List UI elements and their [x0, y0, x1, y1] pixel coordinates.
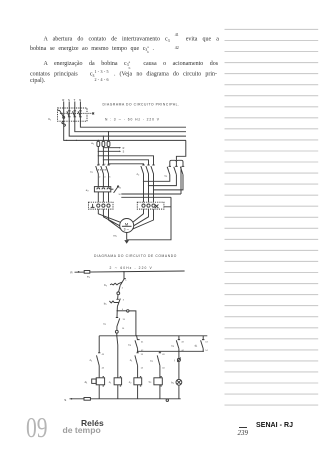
svg-text:R: R — [62, 98, 64, 102]
svg-text:c₃: c₃ — [128, 342, 132, 346]
wire delta link A — [121, 166, 181, 194]
contactor coil c3 — [154, 378, 162, 385]
wire node to b1 — [116, 295, 118, 300]
svg-text:2: 2 — [122, 288, 124, 290]
svg-text:d₁: d₁ — [85, 380, 88, 384]
svg-text:b₀: b₀ — [104, 283, 108, 287]
svg-text:14: 14 — [205, 350, 208, 352]
contact c1 seal (13-14) — [116, 311, 118, 318]
footer right — [256, 422, 293, 429]
branch c3: contact c2 (43-44) — [159, 351, 161, 353]
switch b1 pole N — [78, 111, 82, 117]
wire R squiggle — [62, 121, 66, 126]
wire T phase with bus — [75, 102, 186, 132]
wires box2 to motor — [132, 209, 153, 229]
wire interlock to junction — [137, 349, 139, 352]
flag indicator f — [178, 351, 180, 358]
contactor c2 pole 3 — [151, 165, 155, 202]
svg-text:h₁: h₁ — [171, 381, 174, 385]
feed wire to contactor c2 pole3 — [108, 163, 109, 164]
tap arrow to command R — [103, 147, 104, 148]
svg-text:44: 44 — [162, 367, 165, 369]
svg-text:c₃: c₃ — [171, 344, 175, 348]
svg-text:44: 44 — [102, 367, 105, 369]
overload relay e2 trip lever — [111, 188, 114, 190]
svg-text:4: 4 — [104, 177, 106, 179]
motor terminal box 2 (dashed) — [137, 202, 164, 209]
feed wire to contactor c2 pole1 — [98, 155, 99, 156]
svg-text:c₁: c₁ — [109, 380, 112, 384]
svg-text:c₃: c₃ — [149, 379, 153, 383]
time relay coil d1 — [92, 379, 97, 383]
svg-text:c₂: c₂ — [129, 380, 133, 384]
wire b0 to node — [119, 285, 121, 292]
branch c2: contact c1 (13-14) — [136, 351, 138, 353]
svg-text:43: 43 — [181, 341, 184, 343]
contact c3 interlock (41-42) — [137, 336, 140, 340]
wire delta link B — [121, 196, 171, 198]
svg-text:c₁: c₁ — [90, 358, 93, 362]
branch d1: contact c1 (43-44) — [98, 336, 100, 353]
wire N phase with bus — [80, 102, 186, 128]
wire c1 to node — [116, 327, 118, 331]
junction on rail — [123, 271, 124, 272]
terminal earth mark — [91, 204, 95, 208]
wire top rail L1 — [75, 271, 185, 272]
svg-text:M: M — [125, 221, 128, 226]
contactor c1 pole 1 (pins 1-2) — [96, 165, 100, 187]
wire b1 down to junction — [116, 306, 118, 310]
contactor c3 pole 1 — [167, 166, 171, 174]
svg-text:c₁: c₁ — [90, 170, 93, 174]
fuse e1 pole 1 + wire — [98, 140, 99, 141]
paragraph text — [44, 33, 219, 43]
contactor c3 feed from R bus — [176, 140, 185, 160]
fuse e1 pole 3 + wire — [108, 131, 109, 132]
wire R phase with bus — [64, 102, 186, 141]
motor terminal box 1 (dashed) — [89, 202, 114, 209]
tap arrow to command S — [98, 151, 99, 152]
svg-text:96: 96 — [119, 194, 121, 196]
terminal W1 — [107, 204, 110, 207]
terminal V1 — [102, 204, 105, 207]
terminal on bottom rail — [166, 399, 168, 401]
wire mid rail — [99, 335, 207, 337]
svg-text:43: 43 — [162, 354, 165, 356]
svg-text:2: 2 — [99, 177, 101, 179]
node terminal circle — [117, 292, 120, 295]
svg-text:3: 3 — [104, 164, 106, 166]
svg-text:N: N — [79, 98, 81, 102]
svg-text:3 ∼: 3 ∼ — [124, 228, 130, 232]
svg-text:1: 1 — [99, 164, 101, 166]
svg-text:6: 6 — [109, 177, 111, 179]
contactor c3 pole 3 — [180, 166, 184, 174]
terminal PE mark — [155, 204, 159, 208]
svg-text:13: 13 — [205, 341, 208, 343]
svg-text:1: 1 — [125, 280, 127, 282]
svg-text:95: 95 — [119, 187, 121, 189]
contactor coil c2 — [134, 378, 142, 385]
svg-text:m₁: m₁ — [113, 233, 117, 237]
svg-text:T: T — [74, 98, 76, 102]
fuse e1 pole 2 + wire — [103, 135, 104, 136]
svg-text:c₂: c₂ — [150, 359, 154, 363]
switch b1 enclosure (dashed) — [58, 108, 88, 121]
lamp h1 — [176, 379, 182, 385]
wire motor frame loop — [127, 197, 171, 240]
svg-text:13: 13 — [123, 319, 126, 321]
wire to b0 — [124, 272, 126, 279]
svg-text:N : 3 ∼ - 60 Hz - 220 V: N : 3 ∼ - 60 Hz - 220 V — [105, 118, 160, 122]
svg-text:13: 13 — [141, 354, 144, 356]
contactor c2 pole 1 — [141, 165, 145, 202]
fuse e3 — [84, 271, 90, 274]
wires box1 to motor — [98, 209, 121, 229]
svg-text:d₁: d₁ — [195, 344, 198, 348]
motor M1 — [120, 219, 134, 233]
svg-text:f: f — [174, 360, 175, 363]
wire motor to earth — [126, 233, 128, 240]
contactor c3 bridge arches — [170, 160, 183, 166]
branch h1: contact c3 (43-44) — [178, 336, 180, 340]
svg-text:c₂: c₂ — [137, 172, 141, 176]
wire cross rail — [138, 350, 204, 352]
svg-text:S: S — [123, 150, 125, 153]
feed wire to contactor c2 pole2 — [103, 159, 104, 160]
switch b1 linkage (dashed) — [60, 112, 94, 114]
earth/ground symbol — [124, 240, 129, 244]
wire branch to seal-in — [117, 310, 126, 312]
svg-text:c₁: c₁ — [103, 322, 106, 326]
terminal W2 — [152, 204, 155, 207]
pushbutton b0 (NC) — [120, 279, 124, 286]
overload relay e2 body — [94, 187, 110, 192]
svg-text:R: R — [123, 147, 125, 150]
svg-text:2 ∼ 60Hz - 220 V: 2 ∼ 60Hz - 220 V — [110, 266, 153, 270]
switch b1 pole S — [67, 111, 71, 117]
svg-text:b₁: b₁ — [49, 117, 52, 121]
svg-text:DIAGRAMA DO CIRCUITO DE CO: DIAGRAMA DO CIRCUITO DE COMANDO — [94, 254, 177, 258]
svg-text:14: 14 — [141, 367, 144, 369]
svg-text:3: 3 — [123, 299, 125, 301]
footer logo — [81, 418, 104, 428]
svg-text:DIAGRAMA DO CIRCUITO PRINCI: DIAGRAMA DO CIRCUITO PRINCIPAL. — [103, 103, 180, 107]
svg-text:43: 43 — [102, 354, 105, 356]
contactor c3 pole 2 — [174, 166, 178, 174]
svg-text:c₃: c₃ — [165, 173, 169, 177]
svg-text:S: S — [64, 398, 66, 402]
branch right: contact d1 (13-14) — [202, 336, 204, 340]
svg-text:R: R — [70, 271, 73, 275]
contactor c1 pole 2 (pins 3-4) — [101, 165, 105, 187]
branch c1 coil — [117, 336, 118, 378]
wire S phase with bus — [69, 102, 186, 137]
switch b1 pole R — [63, 116, 65, 118]
contactor c1 linkage (dashed) — [96, 169, 107, 171]
terminal V2 — [147, 204, 150, 207]
terminal U2 — [142, 204, 145, 207]
terminal U1 — [97, 204, 100, 207]
svg-text:c₁: c₁ — [130, 358, 133, 362]
wires e2 to motor terminals — [98, 192, 108, 202]
junction dots on R bus — [66, 140, 67, 141]
wire c3 pole3 to winding terminal — [154, 175, 184, 190]
svg-text:e₁: e₁ — [91, 141, 94, 145]
wire c3 pole2 to winding terminal — [149, 175, 177, 186]
wire bottom rail — [70, 398, 181, 400]
footer: big 09 — [26, 413, 48, 445]
svg-text:b₁: b₁ — [104, 301, 107, 305]
switch b1 pole T — [73, 111, 77, 117]
contactor c1 pole 3 (pins 5-6) — [106, 165, 110, 187]
switch b1 linkage end cross — [92, 112, 94, 114]
contactor c2 pole 2 — [146, 165, 150, 202]
ruled note lines (decorative) — [225, 29, 319, 405]
svg-text:41: 41 — [141, 341, 144, 343]
pushbutton b1 (NO) — [117, 299, 120, 307]
wire c3 pole1 to winding terminal — [144, 175, 170, 182]
svg-text:e₃: e₃ — [87, 275, 91, 279]
fuse e4 — [84, 398, 90, 401]
svg-text:S: S — [68, 98, 70, 102]
svg-text:e₂: e₂ — [86, 188, 90, 192]
svg-text:14: 14 — [122, 328, 125, 330]
